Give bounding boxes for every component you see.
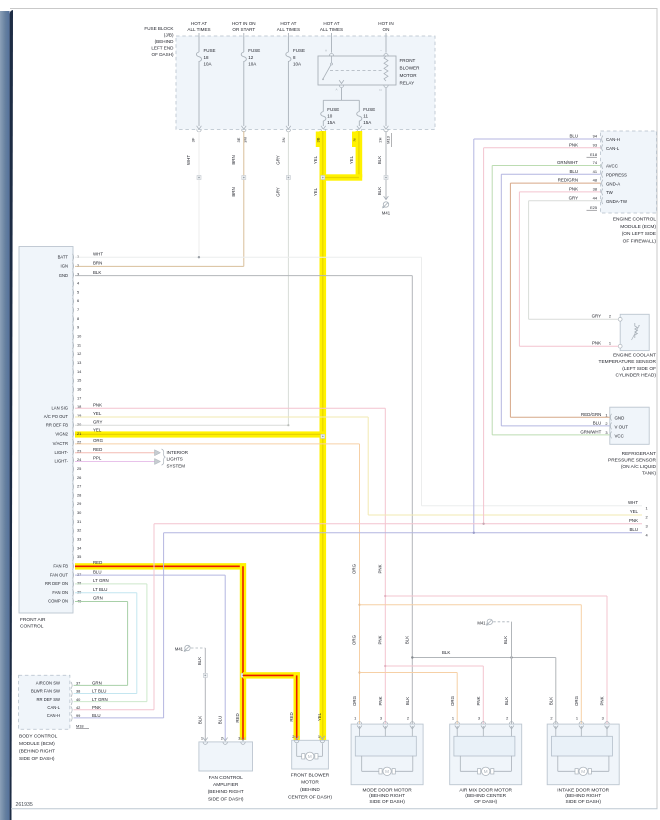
svg-text:(BEHIND RIGHT: (BEHIND RIGHT <box>19 749 55 755</box>
svg-text:BRN: BRN <box>93 261 102 266</box>
svg-text:2: 2 <box>292 734 294 739</box>
svg-text:TEMPERATURE SENSOR: TEMPERATURE SENSOR <box>599 359 657 365</box>
svg-text:SIDE OF DASH): SIDE OF DASH) <box>19 756 55 762</box>
svg-text:BLU: BLU <box>629 527 638 532</box>
relay coil winding <box>384 56 388 81</box>
svg-text:RR DEF SW: RR DEF SW <box>37 697 61 702</box>
svg-text:PNK: PNK <box>377 564 382 573</box>
MODE DOOR MOTOR pin 2 BLK <box>410 722 414 725</box>
refrigerant pressure sensor box <box>610 407 649 444</box>
relay switch feed wire <box>331 33 333 53</box>
svg-text:SIDE OF DASH): SIDE OF DASH) <box>369 799 405 805</box>
MODE DOOR MOTOR pin 1 ORG <box>357 722 361 725</box>
svg-text:V/ACTR: V/ACTR <box>53 441 68 446</box>
svg-text:MODULE (BCM): MODULE (BCM) <box>19 741 55 747</box>
splice VIGN2 on main yellow <box>321 434 325 438</box>
svg-text:3: 3 <box>478 715 480 720</box>
svg-text:1: 1 <box>576 715 578 720</box>
svg-text:25: 25 <box>77 466 81 471</box>
AIR MIX DOOR MOTOR pin 1 ORG <box>455 722 459 725</box>
svg-text:OF DASH): OF DASH) <box>474 799 497 805</box>
svg-text:RED/GRN: RED/GRN <box>558 178 578 183</box>
amplifier pin 3 <box>241 738 246 741</box>
svg-text:RED: RED <box>289 712 294 721</box>
svg-text:FRONT: FRONT <box>400 58 416 63</box>
wire RED vertical highlighted <box>240 563 246 740</box>
svg-text:E18: E18 <box>590 152 597 157</box>
svg-text:YEL: YEL <box>349 155 354 164</box>
svg-text:M18: M18 <box>76 723 84 728</box>
relay switch contact <box>331 56 333 63</box>
svg-text:INTERIOR: INTERIOR <box>167 450 189 455</box>
AIR MIX DOOR MOTOR box <box>450 724 522 785</box>
svg-text:RR DEF FB: RR DEF FB <box>46 422 68 427</box>
svg-text:PPL: PPL <box>93 456 102 461</box>
yellow feed pin arrow at blower <box>320 736 325 739</box>
front air control pins 1-40 <box>73 254 74 261</box>
svg-text:PRESSURE SENSOR: PRESSURE SENSOR <box>608 457 657 463</box>
svg-text:E25: E25 <box>590 205 597 210</box>
svg-text:1: 1 <box>646 505 648 510</box>
AIR MIX DOOR MOTOR pin 3 PNK <box>481 722 485 725</box>
svg-text:2: 2 <box>407 715 409 720</box>
svg-text:10A: 10A <box>293 62 301 67</box>
svg-text:OR START: OR START <box>232 27 255 32</box>
svg-text:YEL: YEL <box>317 712 322 721</box>
wire RED branch to blower highlighted <box>243 672 300 678</box>
svg-text:ORG: ORG <box>574 695 579 706</box>
body control module dashed box <box>19 675 70 729</box>
wire BLK relay ground <box>385 131 387 200</box>
svg-text:2H: 2H <box>378 137 383 142</box>
wire PNK BCM can-l <box>74 709 155 711</box>
bottom border line <box>11 808 658 810</box>
svg-text:38: 38 <box>593 187 597 192</box>
svg-text:GRN/WHT: GRN/WHT <box>580 430 601 435</box>
svg-text:CAN-H: CAN-H <box>606 137 620 142</box>
svg-text:7: 7 <box>77 307 79 312</box>
svg-text:ORG: ORG <box>450 695 455 706</box>
svg-text:2: 2 <box>609 314 611 319</box>
svg-text:12: 12 <box>77 351 81 356</box>
svg-text:–: – <box>380 48 382 52</box>
svg-text:HOT AT: HOT AT <box>280 21 296 26</box>
wire BLU BCM can-h <box>74 717 164 719</box>
MODE DOOR MOTOR motor symbol <box>361 756 363 772</box>
svg-text:BLK: BLK <box>503 636 508 644</box>
svg-text:CAN-L: CAN-L <box>606 146 620 151</box>
wire RED LIGHT- pin23 <box>75 452 155 454</box>
front blower motor box <box>292 740 329 769</box>
wire PNK CAN-L horizontal <box>484 147 601 149</box>
wire BLK GND pin3 <box>75 275 412 277</box>
svg-text:MODE DOOR MOTOR: MODE DOOR MOTOR <box>362 787 412 793</box>
wire BLU CAN-H vertical <box>473 139 475 533</box>
svg-text:3N: 3N <box>281 137 286 142</box>
svg-text:AIRCON SW: AIRCON SW <box>36 681 60 686</box>
svg-text:SIDE OF DASH): SIDE OF DASH) <box>565 799 601 805</box>
svg-text:A: A <box>335 88 337 92</box>
svg-text:WHT: WHT <box>93 251 103 256</box>
svg-text:10A: 10A <box>204 62 212 67</box>
svg-text:ALL TIMES: ALL TIMES <box>277 27 300 32</box>
svg-text:A/C PO OUT: A/C PO OUT <box>44 414 69 419</box>
wire YEL vertical to edge <box>367 417 369 515</box>
wire PNK rail to intake motor <box>384 595 386 597</box>
svg-text:28: 28 <box>77 492 81 497</box>
svg-text:BLU: BLU <box>92 713 101 718</box>
engine control module dashed box <box>601 131 657 213</box>
svg-text:ORG: ORG <box>352 563 357 574</box>
wire LT GRN RR DEF ON pin38 <box>75 583 147 585</box>
wire GRN/WHT to sensor <box>492 434 610 436</box>
svg-text:16: 16 <box>77 386 81 391</box>
wire BRN IGN pin2 <box>75 265 244 267</box>
pin label 3I highlighted <box>352 132 360 148</box>
svg-text:(ON LEFT SIDE: (ON LEFT SIDE <box>622 231 656 237</box>
svg-text:10A: 10A <box>248 62 256 67</box>
svg-text:2: 2 <box>506 715 508 720</box>
svg-text:CENTER OF DASH): CENTER OF DASH) <box>288 794 332 800</box>
svg-text:1: 1 <box>609 340 611 345</box>
svg-text:MOTOR: MOTOR <box>301 780 319 786</box>
svg-text:GRN: GRN <box>92 681 102 686</box>
svg-text:3: 3 <box>605 430 607 435</box>
svg-text:11: 11 <box>363 113 368 118</box>
svg-text:FUSE BLOCK: FUSE BLOCK <box>144 26 174 31</box>
relay actuation dashed link <box>330 70 383 72</box>
svg-text:GRY: GRY <box>592 314 602 319</box>
svg-text:35: 35 <box>77 554 81 559</box>
wire BLU to sensor <box>501 425 610 427</box>
svg-text:FUSE: FUSE <box>248 48 260 53</box>
svg-text:OF FIREWALL): OF FIREWALL) <box>623 238 657 244</box>
svg-text:BRN: BRN <box>231 187 236 196</box>
svg-text:LIGHT-: LIGHT- <box>55 459 69 464</box>
svg-text:41: 41 <box>593 169 597 174</box>
fuse 10 15A <box>321 112 326 122</box>
svg-text:BLK: BLK <box>377 156 382 164</box>
svg-text:BLK: BLK <box>405 697 410 705</box>
relay coil ground pin <box>384 85 388 88</box>
svg-text:FUSE: FUSE <box>327 107 339 112</box>
svg-text:(BEHIND CENTER: (BEHIND CENTER <box>465 793 506 799</box>
INTAKE DOOR MOTOR pin 3 PNK <box>605 722 609 725</box>
svg-text:BLK: BLK <box>548 697 553 705</box>
ECT thermistor symbol <box>635 323 638 338</box>
wire YEL jumper fuse11 to main <box>323 174 362 180</box>
svg-text:M: M <box>308 754 312 759</box>
svg-text:BLK: BLK <box>198 716 203 724</box>
wire relay output to fuses 10/11 tee <box>341 88 343 100</box>
inline connector dots at fuse block exit <box>197 176 201 180</box>
arrow to interior lights (PPL) <box>155 459 161 465</box>
svg-text:BLU: BLU <box>93 569 102 574</box>
svg-text:BLK: BLK <box>442 650 450 655</box>
wire fuse 18 feed <box>198 33 200 52</box>
INTAKE DOOR MOTOR pin 2 BLK <box>554 722 558 725</box>
svg-text:39: 39 <box>77 590 81 595</box>
svg-text:BLK: BLK <box>197 657 202 665</box>
svg-text:PNK: PNK <box>92 705 101 710</box>
svg-text:3: 3 <box>646 523 648 528</box>
engine coolant temperature sensor box <box>620 314 649 350</box>
wire PPL LIGHT- pin24 <box>75 461 155 463</box>
svg-text:3: 3 <box>238 735 240 740</box>
blower internal wiring <box>296 744 298 757</box>
pin label 3B highlighted <box>316 132 324 148</box>
svg-text:1: 1 <box>452 715 454 720</box>
svg-text:GRY: GRY <box>276 155 281 165</box>
svg-text:99: 99 <box>76 713 80 718</box>
wire GRY to ECT pin 2 <box>529 318 619 320</box>
wire LT BLU BCM blwr fan sw <box>74 693 137 695</box>
svg-text:BLU: BLU <box>593 421 602 426</box>
blower pin 2 <box>294 736 299 739</box>
fuse 12 10A <box>241 52 246 62</box>
svg-text:AVCC: AVCC <box>606 164 618 169</box>
svg-text:M41: M41 <box>477 620 486 625</box>
wire PNK to ECT pin 1 <box>519 345 618 347</box>
ground M41 top <box>384 196 389 199</box>
svg-text:ENGINE COOLANT: ENGINE COOLANT <box>613 353 656 359</box>
svg-text:HOT AT: HOT AT <box>191 21 207 26</box>
svg-text:OF DASH): OF DASH) <box>152 52 174 57</box>
wire GRN COMP ON pin40 <box>75 601 128 603</box>
svg-text:29: 29 <box>77 501 81 506</box>
svg-text:37: 37 <box>76 681 80 686</box>
svg-text:9: 9 <box>77 325 79 330</box>
svg-text:32: 32 <box>77 528 81 533</box>
svg-text:1: 1 <box>77 254 79 259</box>
wire fuse 12 feed <box>243 33 245 52</box>
wire LT BLU FAN ON pin39 <box>75 592 137 594</box>
svg-text:15: 15 <box>77 378 81 383</box>
svg-text:GRN/WHT: GRN/WHT <box>557 160 578 165</box>
svg-text:SYSTEM: SYSTEM <box>167 463 186 468</box>
svg-text:8: 8 <box>77 316 79 321</box>
svg-text:ENGINE CONTROL: ENGINE CONTROL <box>613 217 657 223</box>
svg-text:BLK: BLK <box>404 636 409 644</box>
svg-text:2: 2 <box>550 715 552 720</box>
wire BRN from fuse 12 <box>243 131 245 266</box>
svg-text:2: 2 <box>646 515 648 520</box>
svg-text:FAN CONTROL: FAN CONTROL <box>209 775 243 781</box>
svg-text:LT GRN: LT GRN <box>92 697 108 702</box>
svg-text:VCC: VCC <box>615 433 624 438</box>
INTAKE DOOR MOTOR pin 1 ORG <box>579 722 583 725</box>
wire RED/GRN to sensor <box>510 416 609 418</box>
svg-text:5: 5 <box>77 289 79 294</box>
AIR MIX DOOR MOTOR motor symbol <box>459 756 461 772</box>
wire YEL fuse10 highlighted main blower feed <box>320 131 327 740</box>
svg-text:RED/GRN: RED/GRN <box>581 412 601 417</box>
svg-text:BODY CONTROL: BODY CONTROL <box>19 734 58 740</box>
svg-text:INTAKE DOOR MOTOR: INTAKE DOOR MOTOR <box>557 787 609 793</box>
wire ORG vertical to motors <box>359 444 361 724</box>
svg-text:RED: RED <box>93 560 102 565</box>
svg-text:AIR MIX DOOR MOTOR: AIR MIX DOOR MOTOR <box>459 787 512 793</box>
svg-text:LAN SIG: LAN SIG <box>51 405 68 410</box>
wire ORG rail to intake motor <box>358 604 360 606</box>
svg-text:LT BLU: LT BLU <box>92 689 106 694</box>
wire BLU PDPRESS <box>501 173 600 175</box>
svg-text:BATT: BATT <box>58 254 69 259</box>
relay switch output pin <box>339 80 344 83</box>
svg-text:GRY: GRY <box>569 195 579 200</box>
svg-text:LIGHTS: LIGHTS <box>167 457 183 462</box>
svg-text:MODULE (ECM): MODULE (ECM) <box>620 224 656 230</box>
wire PNK TW <box>519 191 600 193</box>
svg-text:(BEHIND: (BEHIND <box>300 787 320 793</box>
svg-text:21: 21 <box>77 431 81 436</box>
svg-text:YEL: YEL <box>313 155 318 164</box>
svg-text:ALL TIMES: ALL TIMES <box>187 27 210 32</box>
fuse block (J/B) dashed box <box>176 36 435 129</box>
svg-text:FRONT BLOWER: FRONT BLOWER <box>291 772 330 778</box>
svg-text:COMP ON: COMP ON <box>48 599 68 604</box>
svg-text:VIGN2: VIGN2 <box>55 432 68 437</box>
svg-text:PNK: PNK <box>476 696 481 705</box>
wire PNK rail to air mix motor <box>384 665 386 667</box>
svg-text:CAN-H: CAN-H <box>47 713 60 718</box>
wire YEL VIGN2 pin21 highlighted <box>75 431 326 437</box>
svg-text:FAN OUT: FAN OUT <box>50 572 69 577</box>
svg-text:HOT AT: HOT AT <box>323 21 339 26</box>
wire WHT batt vertical to edge connector <box>421 257 423 506</box>
svg-text:M41: M41 <box>382 211 391 216</box>
front air control box <box>19 247 73 614</box>
svg-text:PNK: PNK <box>600 696 605 705</box>
svg-text:BLU: BLU <box>217 716 222 725</box>
svg-text:(BEHIND RIGHT: (BEHIND RIGHT <box>208 789 244 795</box>
svg-text:REFRIGERANT: REFRIGERANT <box>622 451 656 457</box>
svg-text:6: 6 <box>77 298 79 303</box>
wire GRY RR DEF FB pin20 <box>75 424 288 426</box>
svg-text:FUSE: FUSE <box>204 48 216 53</box>
svg-text:YEL: YEL <box>93 428 102 433</box>
svg-text:PNK: PNK <box>592 340 601 345</box>
svg-text:MOTOR: MOTOR <box>400 73 418 78</box>
svg-text:(LEFT SIDE OF: (LEFT SIDE OF <box>622 366 656 372</box>
svg-text:FAN ON: FAN ON <box>52 590 68 595</box>
svg-text:3M: 3M <box>243 137 248 143</box>
svg-text:CYLINDER HEAD): CYLINDER HEAD) <box>615 372 656 378</box>
svg-text:GRN: GRN <box>93 596 103 601</box>
svg-text:PDPRESS: PDPRESS <box>606 173 627 178</box>
AIR MIX DOOR MOTOR actuator inner box <box>454 736 515 756</box>
blower motor symbol <box>302 754 305 759</box>
svg-text:ON: ON <box>383 27 390 32</box>
svg-text:M41: M41 <box>175 647 184 652</box>
svg-text:BRN: BRN <box>231 155 236 164</box>
svg-text:BLU: BLU <box>569 134 578 139</box>
svg-text:M: M <box>385 769 389 774</box>
svg-text:HOT IN ON: HOT IN ON <box>232 21 256 26</box>
INTAKE DOOR MOTOR box <box>547 724 619 785</box>
svg-text:1: 1 <box>201 735 203 740</box>
wire YEL A/C PO OUT pin19 <box>75 416 368 418</box>
svg-text:YEL: YEL <box>93 411 102 416</box>
wire WHT BATT pin1 <box>75 256 422 258</box>
relay ground wire exits block <box>385 88 387 126</box>
wire GRY from fuse 8 <box>287 131 289 425</box>
svg-text:13: 13 <box>77 360 81 365</box>
svg-text:1: 1 <box>318 734 320 739</box>
svg-text:CONTROL: CONTROL <box>20 624 44 630</box>
svg-text:PNK: PNK <box>378 696 383 705</box>
svg-text:AMPLIFIER: AMPLIFIER <box>213 782 239 788</box>
svg-text:LIGHT-: LIGHT- <box>55 450 69 455</box>
svg-text:261935: 261935 <box>16 802 33 808</box>
svg-text:ORG: ORG <box>352 695 357 706</box>
svg-text:FUSE: FUSE <box>363 107 375 112</box>
arrow to interior lights (RED) <box>155 450 161 456</box>
svg-text:1: 1 <box>605 412 607 417</box>
svg-text:RED: RED <box>235 713 240 722</box>
MODE DOOR MOTOR actuator inner box <box>355 736 416 756</box>
svg-text:GND: GND <box>59 273 68 278</box>
wire BLU CAN-H drop to BCM <box>163 533 165 718</box>
wire GRN BCM aircon sw <box>74 684 128 686</box>
svg-text:17: 17 <box>77 395 81 400</box>
svg-text:RELAY: RELAY <box>400 80 415 85</box>
svg-text:(BEHIND RIGHT: (BEHIND RIGHT <box>565 793 601 799</box>
svg-text:10: 10 <box>327 113 333 118</box>
svg-text:37: 37 <box>77 572 81 577</box>
wire ORG V/ACTR pin22 <box>75 443 360 445</box>
svg-text:ORG: ORG <box>93 438 104 443</box>
svg-text:WHT: WHT <box>186 155 191 165</box>
wire PNK CAN-L drop to BCM <box>153 524 155 710</box>
relay coil feed wire <box>385 33 387 53</box>
fan control amplifier box <box>199 742 253 771</box>
wire BLK from M41 to amplifier <box>204 648 206 740</box>
svg-text:GRY: GRY <box>93 419 103 424</box>
wire ORG rail to air mix motor <box>358 671 360 673</box>
front blower motor relay box <box>318 56 396 85</box>
svg-text:YEL: YEL <box>630 509 639 514</box>
svg-text:SIDE OF DASH): SIDE OF DASH) <box>208 796 244 802</box>
svg-text:ORG: ORG <box>352 634 357 645</box>
svg-text:WHT: WHT <box>628 500 638 505</box>
svg-text:42: 42 <box>76 705 80 710</box>
svg-text:2: 2 <box>221 735 223 740</box>
svg-text:RED: RED <box>93 447 102 452</box>
fuse 8 10A <box>286 52 291 62</box>
svg-text:LT GRN: LT GRN <box>93 578 109 583</box>
svg-text:(J/B): (J/B) <box>164 33 174 38</box>
splice on yellow feed <box>321 176 325 180</box>
svg-text:15A: 15A <box>363 120 371 125</box>
svg-text:PNK: PNK <box>629 518 638 523</box>
wire BLK M41 to rail and air mix motor <box>511 622 513 724</box>
svg-text:38: 38 <box>77 581 81 586</box>
ECT sensor pin circles <box>618 317 622 321</box>
red junction splice <box>241 673 245 677</box>
svg-text:M: M <box>581 769 585 774</box>
svg-text:BLK: BLK <box>93 270 101 275</box>
wire RED/GRN GND-A <box>510 182 600 184</box>
svg-text:CAN-L: CAN-L <box>47 705 60 710</box>
svg-text:15A: 15A <box>327 120 335 125</box>
INTAKE DOOR MOTOR actuator inner box <box>551 736 612 756</box>
junction WHT at fuse18 <box>198 256 200 258</box>
interior lights brace <box>162 449 166 465</box>
svg-text:BLK: BLK <box>504 697 509 705</box>
fuse 18 10A <box>196 52 201 62</box>
MODE DOOR MOTOR pin 3 PNK <box>383 722 387 724</box>
